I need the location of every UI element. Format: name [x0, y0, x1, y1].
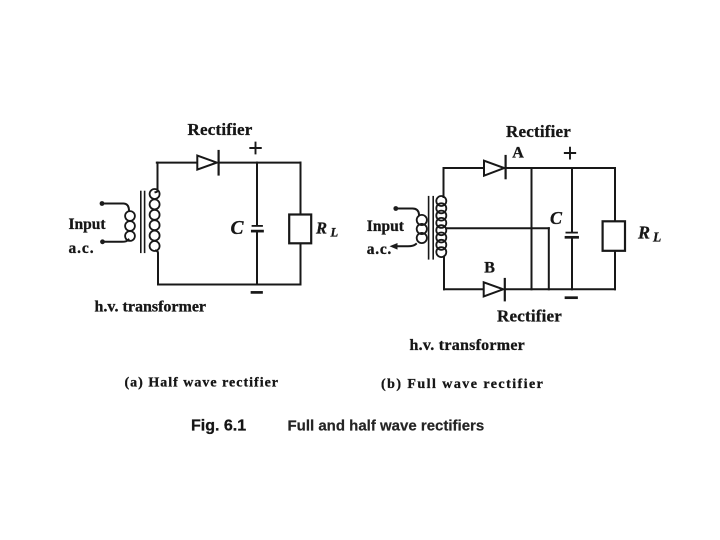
svg-text:L: L — [330, 226, 339, 240]
svg-text:h.v. transformer: h.v. transformer — [410, 337, 526, 354]
svg-text:L: L — [652, 230, 661, 245]
svg-text:Input: Input — [367, 218, 405, 235]
svg-text:B: B — [484, 260, 495, 277]
svg-text:Full and half wave rectifiers: Full and half wave rectifiers — [288, 418, 485, 435]
svg-text:(b) Full wave rectifier: (b) Full wave rectifier — [381, 377, 544, 392]
svg-text:Rectifier: Rectifier — [506, 122, 571, 141]
svg-text:C: C — [550, 208, 563, 228]
svg-text:a.c.: a.c. — [69, 240, 95, 257]
svg-text:(a) Half wave rectifier: (a) Half wave rectifier — [125, 376, 280, 391]
svg-text:Fig. 6.1: Fig. 6.1 — [191, 418, 246, 435]
svg-text:R: R — [315, 219, 327, 238]
svg-text:Rectifier: Rectifier — [497, 307, 562, 326]
svg-text:Rectifier: Rectifier — [188, 120, 253, 139]
svg-text:Input: Input — [69, 216, 107, 233]
svg-text:a.c.: a.c. — [367, 241, 392, 258]
svg-text:A: A — [512, 145, 524, 162]
svg-text:C: C — [231, 218, 245, 239]
svg-text:R: R — [637, 223, 650, 243]
svg-text:h.v. transformer: h.v. transformer — [95, 299, 207, 316]
